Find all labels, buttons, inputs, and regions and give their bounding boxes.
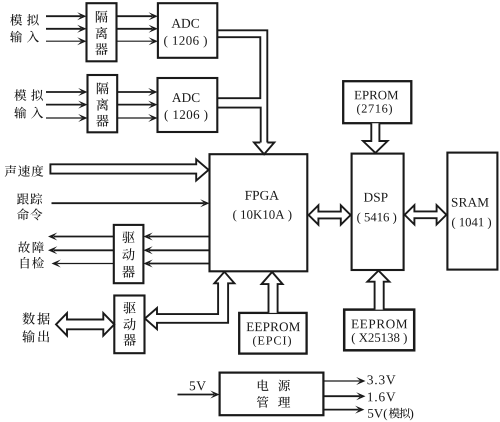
wire FPGA-to-driver1 arrow 3 (149, 263, 210, 265)
label 3.3V output (367, 375, 373, 384)
bus ADC2-lower wire (217, 108, 260, 144)
wire 跟踪命令-to-FPGA arrow (52, 202, 204, 204)
wire driver1-out arrow 3 (57, 263, 114, 265)
label 电源 (power) (258, 380, 269, 391)
label 自检 line2 (21, 257, 29, 269)
label FPGA value (10K10A) (233, 210, 236, 222)
label 输入 input1 line2 (10, 31, 22, 43)
wire analog-input2 arrow 3 (46, 117, 82, 119)
bus ADC1-outer wire (217, 30, 267, 143)
label 隔离器 (isolator1) (96, 11, 108, 23)
block EPROM (343, 81, 411, 123)
wire isolator2-to-ADC2 arrow 1 (117, 91, 152, 93)
wire power-to-3.3V arrow (323, 380, 360, 382)
label 跟踪 line1 (17, 193, 29, 204)
wire driver1-out arrow 2 (54, 249, 114, 251)
bus driver2-FPGA elbow arrow (145, 272, 235, 329)
bus X25138-to-DSP arrow (367, 271, 389, 310)
label SRAM (452, 198, 458, 207)
label EEPROM2 value (X25138) (352, 333, 355, 345)
label EPROM (354, 91, 361, 99)
label ADC1 value (1206) (164, 36, 167, 48)
label 声速度 (sound velocity) (5, 165, 16, 177)
label 5V input (190, 381, 195, 390)
label EEPROM2 (351, 320, 358, 329)
bus ADC1-inner wire (217, 37, 260, 98)
label DSP (364, 193, 373, 202)
bus EPROM-to-DSP arrow (363, 123, 388, 153)
label DSP value (5416) (357, 212, 360, 224)
block ADC2 (158, 78, 218, 132)
wire analog-input2 arrow 2 (46, 104, 82, 106)
wire isolator1-to-ADC1 arrow 3 (117, 40, 153, 42)
bus 数据输出-driver2 bidirectional arrow (56, 313, 114, 336)
wire FPGA-to-driver1 arrow 1 (149, 236, 210, 238)
wire analog-input1 arrow 1 (46, 15, 81, 17)
label EPROM value (2716) (357, 104, 360, 115)
label EEPROM value (EPCI) (253, 336, 256, 347)
wire isolator1-to-ADC1 arrow 1 (117, 15, 153, 17)
bus DSP-SRAM bidirectional arrow (405, 205, 447, 224)
label ADC2 (172, 93, 181, 102)
label 管理 (management) (257, 396, 269, 408)
bus 声速度-to-FPGA hollow arrow (50, 159, 208, 180)
bus EPCI-to-FPGA arrow (262, 272, 283, 313)
block EEPROM-X25138 (344, 310, 414, 351)
label 1.6V output (368, 392, 373, 401)
label SRAM value (1041) (452, 217, 455, 229)
wire isolator2-to-ADC2 arrow 2 (117, 104, 152, 106)
label 驱动器 (driver1) (122, 231, 134, 243)
block power-management (电源管理) (220, 373, 324, 416)
label ADC2 value (1206) (165, 110, 168, 122)
label 模拟 input2 line1 (14, 89, 26, 101)
label 数据 line1 (22, 312, 34, 324)
label EEPROM (EPCI) (247, 323, 254, 332)
block FPGA (210, 154, 308, 271)
block ADC1 (158, 3, 217, 58)
label 驱动器 (driver2) (123, 302, 135, 314)
wire isolator2-to-ADC2 arrow 3 (117, 117, 152, 119)
block DSP (352, 154, 404, 270)
wire analog-input1 arrow 2 (46, 28, 81, 30)
block driver1 (驱动器) (114, 225, 144, 283)
wire analog-input2 arrow 1 (46, 91, 82, 93)
label 隔离器 (isolator2) (97, 82, 109, 94)
block driver2 (驱动器) (114, 296, 144, 354)
label 输出 line2 (22, 330, 35, 342)
block EEPROM-EPCI (239, 313, 306, 354)
label 输入 input2 line2 (14, 107, 26, 119)
wire driver1-out arrow 1 (54, 236, 114, 238)
bus FPGA-DSP bidirectional arrow (309, 205, 351, 224)
block isolator2 (隔离器) (88, 75, 118, 132)
wire isolator1-to-ADC1 arrow 2 (117, 28, 153, 30)
wire power-to-5V-analog arrow (323, 409, 358, 411)
wire FPGA-to-driver1 arrow 2 (149, 249, 210, 251)
label ADC1 (171, 19, 180, 28)
label 故障 line1 (18, 241, 30, 253)
wire power-to-1.6V arrow (323, 395, 360, 397)
label FPGA (245, 191, 252, 200)
block SRAM (447, 153, 497, 270)
label 5V(analog) output (368, 409, 373, 418)
label 命令 line2 (17, 209, 29, 221)
block isolator1 (隔离器) (87, 3, 117, 61)
wire 5V-to-power arrow (178, 394, 215, 396)
label 模拟 input1 line1 (10, 14, 22, 26)
wire analog-input1 arrow 3 (46, 40, 81, 42)
bus ADC-to-FPGA arrowhead (254, 143, 274, 155)
